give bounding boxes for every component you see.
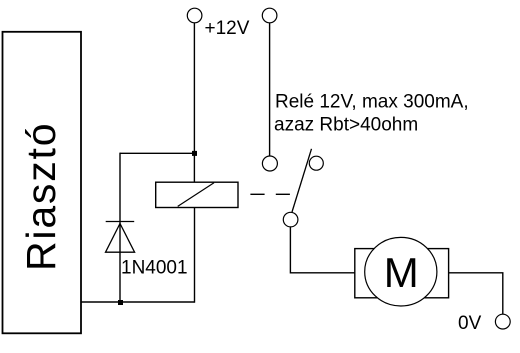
wire: left +12V terminal down to relay coil top bbox=[193, 23, 195, 182]
svg-text:azaz Rbt>40ohm: azaz Rbt>40ohm bbox=[274, 115, 418, 136]
svg-text:M: M bbox=[384, 249, 419, 296]
relay mechanical link (dashes) bbox=[250, 193, 290, 195]
svg-text:+12V: +12V bbox=[205, 18, 250, 39]
motor M1 (body rectangle + circle) bbox=[355, 237, 449, 306]
wire: motor right side to 0V terminal bbox=[449, 273, 503, 314]
terminal +12V left bbox=[187, 8, 202, 23]
terminal +12V right bbox=[262, 8, 277, 23]
switch contact A (common, fed from +12V) bbox=[262, 156, 277, 171]
junction: diode top to supply wire bbox=[192, 151, 197, 156]
wire: relay coil bottom down to bottom wire bbox=[194, 208, 196, 303]
diode D1 1N4001 (cathode bar + triangle) bbox=[106, 222, 135, 253]
switch lever bbox=[292, 149, 312, 212]
svg-text:1N4001: 1N4001 bbox=[121, 258, 188, 279]
relay coil K1 bbox=[156, 182, 238, 207]
svg-text:Riasztó: Riasztó bbox=[18, 122, 64, 271]
wire: horizontal from diode top to junction bbox=[120, 152, 194, 154]
svg-text:Relé 12V, max 300mA,: Relé 12V, max 300mA, bbox=[275, 92, 469, 113]
switch contact B (open contact) bbox=[309, 156, 323, 170]
terminal 0V bbox=[495, 314, 510, 329]
switch contact C (to motor) bbox=[283, 212, 298, 227]
wire: bottom horizontal from alarm box to relay coil return bbox=[81, 301, 195, 303]
wire: right +12V terminal down to switch contact bbox=[269, 23, 271, 156]
wire: vertical through diode down to bottom node bbox=[119, 153, 121, 302]
alarm unit box (Riasztó) bbox=[3, 32, 82, 334]
junction: diode anode on bottom wire bbox=[118, 300, 123, 305]
svg-text:0V: 0V bbox=[458, 313, 482, 334]
wire: switch contact C down and right to motor bbox=[290, 227, 354, 273]
